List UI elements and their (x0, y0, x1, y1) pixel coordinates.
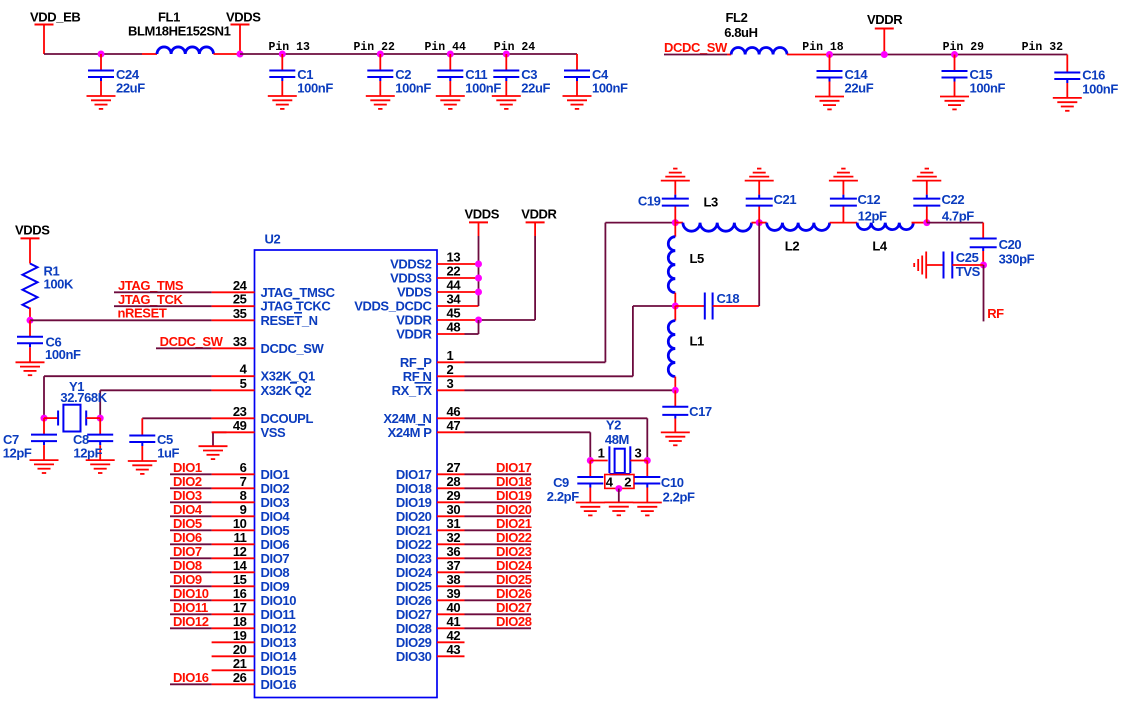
svg-text:DIO24: DIO24 (496, 558, 533, 573)
svg-text:45: 45 (447, 306, 461, 321)
wire RX_TX (465, 389, 676, 391)
svg-text:L5: L5 (690, 251, 705, 266)
junction (447, 51, 454, 58)
svg-text:C18: C18 (717, 291, 740, 306)
svg-text:10: 10 (233, 516, 247, 531)
capacitor C8 (73, 418, 113, 461)
net label DIO5 (170, 516, 212, 531)
svg-text:2: 2 (624, 475, 631, 490)
ferrite bead FL1 (128, 10, 240, 55)
junction (475, 317, 482, 324)
svg-text:C21: C21 (774, 192, 797, 207)
pin 39 DIO26 (396, 586, 465, 608)
svg-text:VDDS2: VDDS2 (390, 257, 432, 272)
svg-text:29: 29 (447, 488, 461, 503)
svg-text:48: 48 (447, 320, 461, 335)
pin 47 X24M_P (388, 418, 465, 440)
svg-text:24: 24 (233, 278, 248, 293)
node Pin 22 (354, 41, 396, 54)
svg-text:DIO14: DIO14 (261, 649, 298, 664)
junction (279, 51, 286, 58)
svg-text:DIO6: DIO6 (173, 530, 202, 545)
svg-text:Pin 32: Pin 32 (1022, 41, 1064, 54)
svg-text:21: 21 (233, 656, 247, 671)
pin 21 DIO15 (212, 656, 297, 678)
svg-text:DIO26: DIO26 (496, 586, 532, 601)
junction (644, 457, 651, 464)
wire X24M_N (465, 418, 648, 460)
svg-text:DIO21: DIO21 (396, 523, 432, 538)
capacitor C16 (1054, 55, 1118, 99)
svg-text:28: 28 (447, 474, 461, 489)
svg-text:2.2pF: 2.2pF (547, 489, 579, 504)
svg-text:Pin 29: Pin 29 (943, 41, 985, 54)
svg-text:VDDR: VDDR (867, 12, 903, 27)
svg-text:49: 49 (233, 418, 247, 433)
svg-text:100nF: 100nF (395, 81, 431, 96)
svg-text:DIO22: DIO22 (396, 537, 432, 552)
wire (44, 376, 212, 418)
svg-text:DIO15: DIO15 (261, 663, 297, 678)
svg-text:DIO1: DIO1 (261, 467, 290, 482)
ground (604, 502, 633, 515)
power flag VDDS (15, 223, 50, 264)
svg-text:nRESET: nRESET (118, 306, 167, 321)
IC U2 (255, 232, 438, 698)
svg-text:DIO7: DIO7 (173, 544, 202, 559)
svg-text:38: 38 (447, 572, 461, 587)
pin 8 DIO3 (212, 488, 290, 510)
wire RF_N (465, 306, 676, 376)
svg-text:26: 26 (233, 670, 247, 685)
svg-text:BLM18HE152SN1: BLM18HE152SN1 (128, 23, 231, 38)
pin 42 DIO29 (396, 628, 465, 650)
svg-text:JTAG_TMS: JTAG_TMS (118, 278, 184, 293)
svg-text:VDDR: VDDR (396, 313, 432, 328)
power flag VDDS (465, 207, 500, 236)
wire (44, 53, 142, 55)
inductor L1 (668, 306, 704, 390)
svg-text:Pin 22: Pin 22 (354, 41, 396, 54)
ground (16, 362, 45, 375)
pin 48 VDDR (396, 320, 464, 342)
ground (914, 252, 926, 279)
resistor R1 (23, 264, 74, 321)
pin 10 DIO5 (212, 516, 290, 538)
svg-text:DIO4: DIO4 (173, 502, 203, 517)
svg-text:VDDR: VDDR (521, 207, 557, 222)
svg-text:1uF: 1uF (157, 446, 179, 461)
svg-text:DIO20: DIO20 (396, 509, 432, 524)
junction (672, 387, 679, 394)
svg-text:DIO17: DIO17 (496, 460, 532, 475)
power flag VDDS (226, 10, 261, 55)
capacitor C5 (129, 418, 179, 461)
svg-text:DCDC_SW: DCDC_SW (664, 40, 728, 55)
ground (366, 96, 395, 109)
svg-text:DIO13: DIO13 (261, 635, 297, 650)
svg-text:VDD_EB: VDD_EB (30, 10, 80, 25)
svg-text:C22: C22 (942, 192, 965, 207)
ground (492, 96, 521, 109)
svg-text:C9: C9 (553, 475, 569, 490)
crystal Y1 (44, 379, 108, 432)
inductor L2 (759, 223, 857, 254)
pin 40 DIO27 (396, 600, 465, 622)
svg-text:DIO9: DIO9 (173, 572, 202, 587)
capacitor C2 (367, 54, 431, 96)
svg-text:DIO28: DIO28 (496, 614, 532, 629)
svg-text:X24M P: X24M P (388, 425, 433, 440)
pin 23 DCOUPL (212, 404, 314, 426)
svg-text:4: 4 (606, 475, 614, 490)
svg-text:RF N: RF N (403, 369, 432, 384)
ground (563, 96, 592, 109)
wire (114, 291, 212, 293)
wire (983, 265, 985, 321)
capacitor C21 (746, 181, 797, 223)
net label DIO7 (170, 544, 212, 559)
svg-text:12pF: 12pF (73, 446, 102, 461)
net label DCDC_SW (664, 40, 728, 55)
wire (114, 305, 212, 307)
pin 16 DIO10 (212, 586, 297, 608)
svg-text:DIO16: DIO16 (261, 677, 297, 692)
svg-text:DIO2: DIO2 (173, 474, 202, 489)
ground (661, 169, 690, 181)
svg-text:15: 15 (233, 572, 247, 587)
pin 38 DIO25 (396, 572, 465, 594)
pin 34 VDDS_DCDC (354, 292, 478, 314)
pin 12 DIO7 (212, 544, 290, 566)
net label DIO16 (170, 670, 212, 685)
wire (100, 390, 211, 418)
svg-text:Y2: Y2 (606, 418, 621, 433)
svg-text:JTAG TCKC: JTAG TCKC (261, 299, 332, 314)
pin 36 DIO23 (396, 544, 465, 566)
svg-text:DIO8: DIO8 (173, 558, 202, 573)
node Pin 24 (494, 41, 536, 54)
svg-text:VDDS: VDDS (15, 223, 50, 238)
svg-text:DIO2: DIO2 (261, 481, 290, 496)
svg-text:25: 25 (233, 292, 247, 307)
svg-text:DIO20: DIO20 (496, 502, 532, 517)
svg-text:DIO4: DIO4 (261, 509, 291, 524)
svg-text:DIO7: DIO7 (261, 551, 290, 566)
power flag VDDR (867, 12, 903, 55)
capacitor C11 (437, 54, 501, 96)
pin 15 DIO9 (212, 572, 290, 594)
pin 46 X24M_N (383, 404, 464, 426)
pin 27 DIO17 (396, 460, 465, 482)
svg-text:22uF: 22uF (845, 81, 874, 96)
svg-text:RF_P: RF_P (400, 355, 432, 370)
pin 31 DIO21 (396, 516, 465, 538)
pin 18 DIO12 (212, 614, 297, 636)
svg-text:DIO1: DIO1 (173, 460, 202, 475)
net label DIO9 (170, 572, 212, 587)
svg-text:TVS: TVS (956, 264, 981, 279)
capacitor C20 (970, 223, 1035, 267)
svg-text:DIO21: DIO21 (496, 516, 532, 531)
svg-text:Pin 44: Pin 44 (425, 41, 467, 54)
svg-text:32: 32 (447, 530, 461, 545)
net label DIO26 (465, 586, 532, 601)
junction (672, 303, 679, 310)
pin 13 VDDS2 (390, 250, 478, 272)
net label DIO21 (465, 516, 532, 531)
junction (41, 415, 48, 422)
svg-text:7: 7 (240, 474, 247, 489)
svg-text:DIO18: DIO18 (496, 474, 532, 489)
pin 14 DIO8 (212, 558, 290, 580)
svg-text:L3: L3 (704, 195, 719, 210)
svg-text:35: 35 (233, 306, 247, 321)
capacitor C7 (3, 418, 57, 461)
ground (436, 96, 465, 109)
junction (475, 275, 482, 282)
svg-text:2: 2 (447, 362, 454, 377)
svg-text:Pin 18: Pin 18 (802, 41, 844, 54)
svg-text:3: 3 (447, 376, 454, 391)
svg-text:DIO3: DIO3 (173, 488, 202, 503)
capacitor C18 (675, 291, 759, 320)
wire RF_P (465, 223, 676, 363)
svg-text:12pF: 12pF (3, 446, 32, 461)
ground (576, 503, 605, 516)
svg-text:100nF: 100nF (297, 81, 333, 96)
capacitor C4 (564, 54, 628, 96)
pin 25 JTAG_TCKC (212, 292, 332, 314)
ground (1053, 98, 1082, 111)
svg-text:DCDC_SW: DCDC_SW (160, 334, 224, 349)
svg-text:X32K Q2: X32K Q2 (261, 383, 312, 398)
wire (240, 53, 577, 55)
svg-text:22uF: 22uF (116, 81, 145, 96)
svg-text:DIO23: DIO23 (496, 544, 532, 559)
svg-text:100nF: 100nF (970, 81, 1006, 96)
svg-text:DIO26: DIO26 (396, 593, 432, 608)
pin 43 DIO30 (396, 642, 465, 664)
svg-text:VDDS_DCDC: VDDS_DCDC (354, 299, 432, 314)
pin 24 JTAG_TMSC (212, 278, 336, 300)
svg-text:44: 44 (447, 278, 462, 293)
pin 45 VDDR (396, 306, 478, 328)
inductor L5 (668, 223, 704, 306)
ground (815, 97, 844, 110)
svg-text:DIO10: DIO10 (261, 593, 297, 608)
svg-text:VDDR: VDDR (396, 327, 432, 342)
pin 37 DIO24 (396, 558, 465, 580)
pin 7 DIO2 (212, 474, 290, 496)
svg-text:47: 47 (447, 418, 461, 433)
wire (758, 223, 760, 306)
pin 20 DIO14 (212, 642, 298, 664)
pin 33 DCDC_SW (212, 334, 325, 356)
pin 26 DIO16 (212, 670, 297, 692)
svg-text:6.8uH: 6.8uH (724, 25, 757, 40)
pin 49 VSS (212, 418, 286, 440)
pin 1 RF_P (400, 348, 465, 370)
svg-text:L2: L2 (785, 239, 800, 254)
ground (268, 96, 297, 109)
net label DIO1 (170, 460, 212, 475)
svg-text:4: 4 (240, 362, 248, 377)
junction (923, 219, 930, 226)
svg-text:3: 3 (635, 446, 642, 461)
svg-text:22: 22 (447, 264, 461, 279)
junction (756, 219, 763, 226)
pin 2 RF_N (403, 362, 465, 384)
capacitor C22 (913, 181, 974, 224)
svg-text:4.7pF: 4.7pF (942, 209, 974, 224)
svg-text:VDDS: VDDS (397, 285, 432, 300)
ground (661, 432, 690, 445)
junction (615, 485, 622, 492)
capacitor C19 (638, 181, 689, 223)
svg-text:C20: C20 (999, 237, 1022, 252)
junction (97, 415, 104, 422)
svg-text:DIO5: DIO5 (173, 516, 202, 531)
junction (672, 219, 679, 226)
svg-text:33: 33 (233, 334, 247, 349)
svg-text:VSS: VSS (261, 425, 287, 440)
junction (237, 51, 244, 58)
net label DIO3 (170, 488, 212, 503)
junction (98, 51, 105, 58)
svg-text:41: 41 (447, 614, 461, 629)
svg-text:100nF: 100nF (1082, 82, 1118, 97)
inductor L4 (857, 223, 927, 254)
svg-text:11: 11 (234, 530, 247, 545)
svg-text:100K: 100K (44, 277, 74, 292)
ground (912, 169, 941, 181)
wire (664, 54, 727, 56)
svg-text:34: 34 (447, 292, 462, 307)
svg-text:DIO18: DIO18 (396, 481, 432, 496)
svg-text:2.2pF: 2.2pF (663, 490, 695, 505)
wire (927, 222, 983, 224)
svg-text:DIO8: DIO8 (261, 565, 290, 580)
svg-text:39: 39 (447, 586, 461, 601)
svg-text:DIO11: DIO11 (261, 607, 296, 622)
inductor FL2 (724, 10, 829, 55)
svg-text:18: 18 (233, 614, 247, 629)
svg-text:100nF: 100nF (45, 347, 81, 362)
svg-text:RESET_N: RESET_N (261, 313, 318, 328)
ground (745, 169, 774, 181)
pin 11 DIO6 (212, 530, 290, 552)
pin 9 DIO4 (212, 502, 291, 524)
junction (881, 51, 888, 58)
pin 22 VDDS3 (390, 264, 478, 286)
ground (86, 460, 115, 473)
junction (503, 51, 510, 58)
junction (980, 262, 987, 269)
wire X24M_P (465, 432, 591, 460)
svg-text:VDDS: VDDS (226, 10, 261, 25)
node Pin 18 (802, 41, 844, 54)
svg-text:C10: C10 (661, 475, 684, 490)
node Pin 29 (943, 41, 985, 54)
svg-text:DIO17: DIO17 (396, 467, 432, 482)
svg-text:C16: C16 (1082, 68, 1105, 83)
node Pin 32 (1022, 41, 1064, 54)
svg-text:RX_TX: RX_TX (392, 383, 433, 398)
svg-text:330pF: 330pF (999, 252, 1035, 267)
pin 44 VDDS (397, 278, 479, 300)
net label RF (987, 306, 1004, 321)
svg-text:DIO12: DIO12 (261, 621, 297, 636)
svg-text:46: 46 (447, 404, 461, 419)
net label DIO27 (465, 600, 532, 615)
junction (475, 289, 482, 296)
pin 3 RX_TX (392, 376, 465, 398)
svg-text:23: 23 (233, 404, 247, 419)
svg-text:43: 43 (447, 642, 461, 657)
net label DIO24 (465, 558, 533, 573)
svg-text:42: 42 (447, 628, 461, 643)
svg-text:C25: C25 (956, 250, 979, 265)
wire (465, 320, 479, 334)
svg-text:C19: C19 (638, 194, 661, 209)
svg-text:100nF: 100nF (465, 81, 501, 96)
svg-text:JTAG_TMSC: JTAG_TMSC (261, 285, 336, 300)
net label DIO25 (465, 572, 532, 587)
crystal Y2 (590, 418, 647, 490)
svg-text:14: 14 (233, 558, 248, 573)
pin 35 RESET_N (212, 306, 318, 328)
svg-text:DIO27: DIO27 (496, 600, 532, 615)
svg-text:DIO16: DIO16 (173, 670, 209, 685)
node Pin 13 (269, 41, 311, 54)
pin 32 DIO22 (396, 530, 465, 552)
ground (128, 461, 157, 474)
svg-text:48M: 48M (605, 432, 629, 447)
capacitor C15 (942, 55, 1006, 97)
net label JTAG_TMS (118, 278, 184, 293)
svg-text:13: 13 (447, 250, 461, 265)
net label nRESET (118, 306, 167, 321)
svg-text:DCDC_SW: DCDC_SW (261, 341, 325, 356)
svg-text:DIO9: DIO9 (261, 579, 290, 594)
svg-text:X24M_N: X24M_N (383, 411, 431, 426)
pin 4 X32K_Q1 (212, 362, 315, 384)
capacitor C6 (17, 320, 81, 362)
svg-text:VDDS: VDDS (465, 207, 500, 222)
svg-text:DIO6: DIO6 (261, 537, 290, 552)
svg-text:12pF: 12pF (858, 209, 887, 224)
pin 30 DIO20 (396, 502, 465, 524)
pin 6 DIO1 (212, 460, 290, 482)
svg-text:DIO3: DIO3 (261, 495, 290, 510)
junction (475, 261, 482, 268)
capacitor C24 (88, 54, 145, 96)
svg-text:Pin 24: Pin 24 (494, 41, 536, 54)
svg-text:DIO22: DIO22 (496, 530, 532, 545)
wire (478, 236, 480, 306)
svg-text:X32K_Q1: X32K_Q1 (261, 369, 315, 384)
node Pin 44 (425, 41, 467, 54)
svg-text:19: 19 (233, 628, 247, 643)
svg-text:DIO19: DIO19 (396, 495, 432, 510)
ground (87, 96, 116, 109)
svg-text:FL1: FL1 (158, 10, 180, 25)
svg-text:6: 6 (240, 460, 247, 475)
capacitor C25 TVS (926, 250, 983, 279)
junction (377, 51, 384, 58)
svg-text:DIO11: DIO11 (173, 600, 208, 615)
